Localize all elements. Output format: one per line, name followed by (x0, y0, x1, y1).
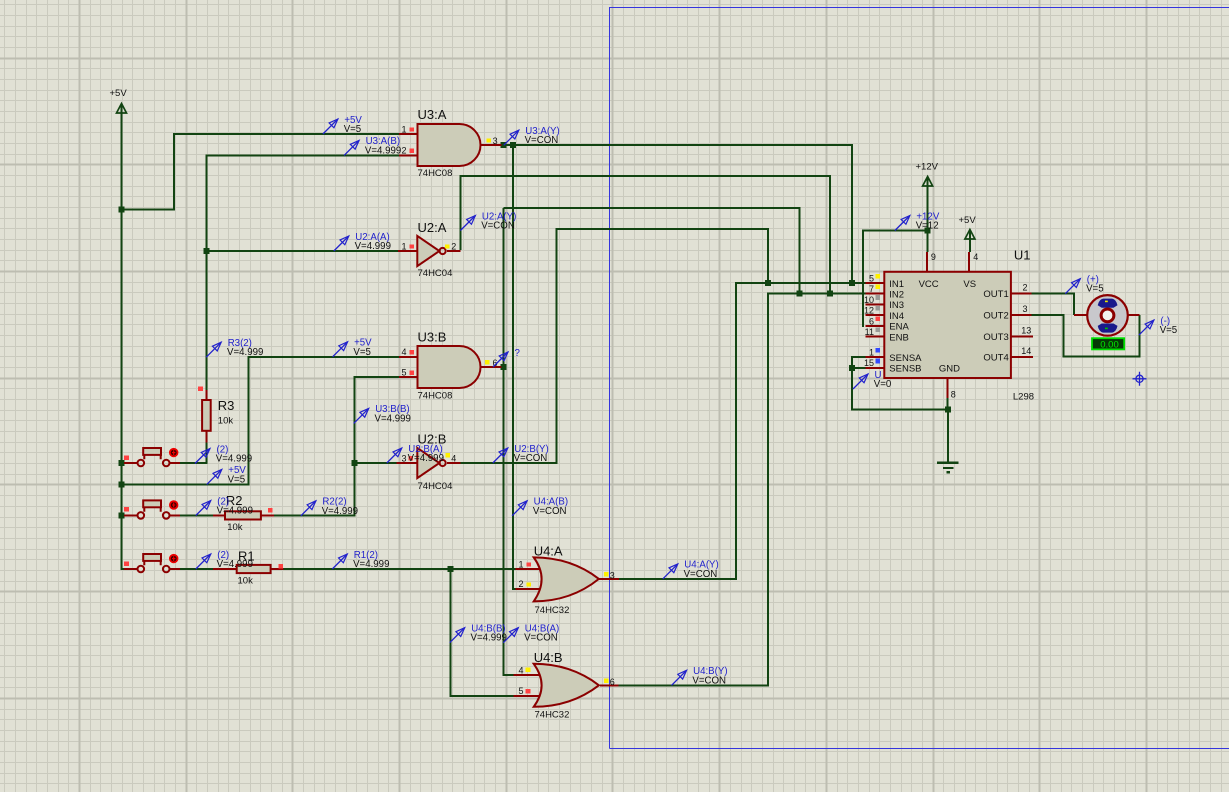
junction U3:A out b (510, 142, 516, 148)
power +5V (top left) (110, 88, 128, 113)
pin state ENA (875, 317, 880, 322)
svg-text:V=5: V=5 (344, 124, 362, 135)
junction IN2 left (796, 291, 802, 297)
origin marker (blue crosshair) (1133, 372, 1147, 386)
probe U4:B(Y) (672, 666, 728, 686)
svg-text:74HC32: 74HC32 (535, 605, 570, 616)
pin state U3:A.1 high (410, 127, 414, 131)
svg-text:OUT2: OUT2 (983, 311, 1008, 322)
svg-text:10: 10 (864, 295, 874, 305)
wire +5V to U3:A pin1 (122, 134, 399, 210)
pin state button2 (124, 507, 129, 512)
wire U3:A pin2 to R3 top (206, 155, 398, 390)
svg-text:VCC: VCC (919, 279, 939, 290)
pin state IN3 (875, 295, 880, 300)
pin state U3:A.2 high (410, 149, 414, 153)
probe U3:B(B) (354, 404, 411, 424)
pin state U4:B.4 (525, 668, 530, 672)
wire H208 to IN2 (503, 208, 799, 294)
junction button1 (119, 460, 125, 466)
pin state button1 (124, 456, 129, 461)
svg-text:+12V: +12V (916, 162, 939, 173)
resistor R1 (10k) (213, 565, 284, 573)
pin state R1 right (278, 564, 283, 569)
wire U2:A input from node (206, 250, 398, 252)
svg-text:ENA: ENA (889, 322, 909, 333)
svg-text:?: ? (515, 348, 521, 359)
wire R1 right to U4:A pin1 (270, 568, 516, 570)
pin state U2:B.3 high (408, 456, 412, 460)
wire button2 right to R2 (180, 514, 226, 516)
pin state U2:B.4 out (445, 453, 449, 457)
svg-text:13: 13 (1021, 325, 1031, 335)
probe U (SENSB, clipped by IC) (853, 370, 892, 390)
svg-text:2: 2 (518, 579, 523, 589)
probe ? on U3:B out (493, 348, 521, 367)
wire R2 right to U3:B pin5 and U2:B input (260, 377, 399, 515)
pin state U2:A.2 out (445, 244, 449, 248)
svg-text:V=4.999: V=4.999 (365, 145, 401, 156)
probe +5V on U3:B pin4 (333, 338, 373, 358)
wire OUT2 to motor - (1031, 315, 1139, 356)
svg-text:V=4.999: V=4.999 (217, 559, 253, 570)
probe U2:B(Y) (493, 444, 549, 464)
wire +5V rail to U3:B pin4 (122, 357, 399, 485)
probe R3(2) (206, 338, 263, 358)
svg-text:6: 6 (869, 316, 874, 326)
wire +12V branch to ENA (863, 231, 928, 327)
ground (937, 463, 958, 472)
svg-text:IN2: IN2 (889, 290, 904, 301)
svg-text:8: 8 (951, 390, 956, 400)
power +12V (916, 162, 939, 187)
svg-text:U3:B: U3:B (418, 330, 447, 345)
inverter U2:B (74HC04) (397, 448, 461, 478)
junction +12V/ENA (925, 228, 931, 234)
AND gate U3:B (74HC08) (399, 346, 502, 388)
probe +12V (895, 211, 940, 231)
wire U2:B output to IN1 (460, 229, 768, 463)
svg-text:5: 5 (869, 274, 874, 284)
wire vertical V1: U3:B out net down to U4:B pin4 (503, 208, 513, 675)
svg-text:V=5: V=5 (228, 474, 246, 485)
motor speed display (1092, 338, 1124, 349)
svg-text:SENSB: SENSB (889, 364, 921, 375)
svg-text:4: 4 (518, 665, 523, 675)
svg-text:1: 1 (869, 348, 874, 358)
AND gate U3:A (74HC08) (399, 124, 502, 166)
svg-text:1: 1 (401, 124, 406, 134)
probe U2:A(Y) (460, 211, 516, 231)
probe (-) motor (1139, 316, 1177, 336)
pin state U4:B.6 out (604, 679, 608, 683)
probe R2(2) (301, 497, 358, 517)
pin state IN1 (875, 274, 880, 279)
junction SENSB (849, 365, 855, 371)
svg-text:3: 3 (493, 136, 498, 146)
junction U3:B out (500, 364, 506, 370)
OR gate U4:B (74HC32) (514, 664, 619, 707)
probe U4:B(A) (503, 624, 559, 644)
resistor R3 (10k, vertical) (202, 390, 211, 442)
junction button2 (119, 512, 125, 518)
junction +5V rail (119, 482, 125, 488)
svg-text:2: 2 (401, 146, 406, 156)
wire button2 left (122, 514, 127, 516)
probe U4:A(B) (512, 497, 568, 517)
svg-text:V=4.999: V=4.999 (353, 559, 389, 570)
pin state button3 (124, 562, 129, 567)
svg-text:U1: U1 (1014, 248, 1031, 263)
probe U3:A(Y) (504, 126, 560, 146)
svg-text:14: 14 (1021, 346, 1031, 356)
pin state R2 right (268, 508, 273, 513)
svg-text:V=4.999: V=4.999 (217, 506, 253, 517)
pin state U4:A.1 high (527, 562, 531, 566)
svg-text:ENB: ENB (889, 332, 909, 343)
junction R1 row node (448, 566, 454, 572)
svg-text:SENSA: SENSA (889, 353, 922, 364)
probe +5V rail (207, 465, 247, 485)
svg-text:OUT3: OUT3 (983, 332, 1008, 343)
svg-text:V=CON: V=CON (481, 221, 515, 232)
pin state R3 top (198, 386, 203, 391)
svg-text:10k: 10k (238, 576, 254, 587)
OR gate U4:A (74HC32) (516, 557, 619, 601)
svg-text:V=CON: V=CON (684, 569, 718, 580)
svg-text:V=4.999: V=4.999 (227, 347, 263, 358)
svg-text:V=4.999: V=4.999 (471, 633, 507, 644)
push button 3 (124, 554, 180, 572)
junction +5V/U3:A pin1 (119, 207, 125, 213)
svg-text:V=CON: V=CON (514, 453, 548, 464)
svg-text:10k: 10k (218, 416, 234, 427)
svg-text:3: 3 (1023, 304, 1028, 314)
junction GND node (945, 407, 951, 413)
svg-text:74HC08: 74HC08 (418, 168, 453, 179)
probe U3:A(B) (344, 136, 401, 156)
svg-text:6: 6 (610, 677, 615, 687)
probe U4:B(B) (450, 624, 507, 644)
svg-text:V=5: V=5 (1160, 325, 1178, 336)
junction IN1 right (849, 280, 855, 286)
pin state U3:A.3 out (487, 138, 491, 142)
svg-text:3: 3 (401, 453, 406, 463)
pin state ENB (875, 327, 880, 332)
wire GND pin down (946, 398, 948, 409)
pin state SENSA (875, 348, 880, 353)
junction IN1 left (765, 280, 771, 286)
pin state U3:B.4 high (410, 350, 414, 354)
wire +5V rail vertical (left) (122, 104, 138, 569)
wire R3 bottom to button1 (180, 442, 207, 463)
probe U2:B(A) (387, 444, 444, 464)
svg-text:V=4.999: V=4.999 (355, 241, 391, 252)
svg-text:U4:A: U4:A (534, 544, 563, 559)
probe (2) button3 (196, 550, 253, 570)
svg-text:V=5: V=5 (1086, 284, 1104, 295)
svg-text:U2:A: U2:A (418, 220, 447, 235)
svg-text:R3: R3 (218, 398, 235, 413)
svg-text:2: 2 (1023, 283, 1028, 293)
svg-text:IN3: IN3 (889, 300, 904, 311)
pin state U4:B.5 high (525, 689, 530, 693)
push button 1 (124, 448, 180, 466)
svg-text:V=4.999: V=4.999 (375, 413, 411, 424)
svg-text:V=0: V=0 (874, 379, 892, 390)
junction U3:A out a (501, 142, 507, 148)
probe U2:A(A) (334, 232, 391, 252)
svg-text:V=4.999: V=4.999 (408, 453, 444, 464)
wire +12V to VCC (927, 178, 929, 252)
svg-text:74HC04: 74HC04 (418, 268, 453, 279)
svg-text:5: 5 (518, 686, 523, 696)
svg-text:GND: GND (939, 364, 960, 375)
svg-text:V=4.999: V=4.999 (216, 454, 252, 465)
wire U3:A output to IN1 (501, 145, 852, 283)
pin state U3:B.6 out (485, 360, 489, 364)
wire SENSA/SENSB to ground (852, 357, 948, 462)
wire U2:A output to IN2 (460, 176, 830, 294)
svg-text:10k: 10k (227, 522, 243, 533)
svg-text:11: 11 (865, 327, 874, 337)
probe (2) button2 (196, 496, 253, 516)
wire U2:B input branch (354, 462, 396, 464)
pin state IN2 (875, 285, 880, 290)
svg-text:V=CON: V=CON (524, 633, 558, 644)
probe (2) button1 (195, 444, 252, 464)
svg-text:3: 3 (610, 571, 615, 581)
inverter U2:A (74HC04) (398, 236, 461, 266)
svg-text:U3:A: U3:A (418, 107, 447, 122)
svg-text:74HC04: 74HC04 (418, 481, 453, 492)
svg-text:1: 1 (401, 241, 406, 251)
wire button3 right to R1 (180, 568, 238, 570)
pin state IN4 (875, 306, 880, 311)
probe U4:A(Y) (663, 560, 719, 580)
wire vertical V2: U3:A out down to U4:A pin2 (513, 145, 516, 589)
svg-text:IN1: IN1 (889, 279, 904, 290)
push button 2 (124, 500, 180, 518)
svg-text:VS: VS (963, 279, 976, 290)
power +5V (VS) (959, 215, 977, 239)
wire button3 left (122, 568, 127, 570)
svg-text:U4:B: U4:B (534, 650, 563, 665)
svg-text:15: 15 (864, 358, 874, 368)
wire +5V to VS (969, 231, 971, 252)
IC U1 L298 (865, 252, 1033, 398)
svg-text:V=CON: V=CON (692, 675, 726, 686)
svg-text:+5V: +5V (959, 215, 977, 226)
svg-text:4: 4 (451, 453, 456, 463)
svg-text:0.00: 0.00 (1100, 340, 1119, 351)
junction IN2 right (827, 291, 833, 297)
svg-text:12: 12 (864, 306, 874, 316)
wire SENSB stub link (852, 367, 865, 369)
svg-text:V=4.999: V=4.999 (322, 506, 358, 517)
svg-text:9: 9 (931, 252, 936, 262)
pin state U4:A.2 low (527, 582, 531, 586)
svg-text:4: 4 (973, 252, 978, 262)
junction U2:B input node (351, 460, 357, 466)
svg-text:OUT4: OUT4 (983, 353, 1008, 364)
pin state U2:A.1 high (410, 244, 414, 248)
pin state SENSB (875, 359, 880, 364)
svg-text:4: 4 (401, 347, 406, 357)
wire IN1 row to U4:A output (619, 283, 865, 579)
pin state U4:A.3 out (604, 572, 608, 576)
pin state U3:B.5 high (410, 371, 414, 375)
junction U2:A input node (203, 248, 209, 254)
svg-text:V=5: V=5 (353, 347, 371, 358)
wire IN2 row to U4:B output (619, 294, 866, 686)
svg-text:IN4: IN4 (889, 311, 904, 322)
svg-text:V=CON: V=CON (525, 135, 559, 146)
resistor R2 (10k) (213, 511, 274, 519)
wire node to U4:B pin5 (451, 569, 514, 696)
motor (1074, 295, 1140, 350)
probe R1(2) (332, 550, 389, 570)
svg-text:7: 7 (869, 284, 874, 294)
wire button1 left (122, 462, 127, 464)
svg-text:5: 5 (401, 368, 406, 378)
svg-text:2: 2 (451, 241, 456, 251)
probe (+) motor (1065, 275, 1103, 295)
svg-text:V=12: V=12 (916, 221, 939, 232)
svg-text:V=CON: V=CON (533, 506, 567, 517)
svg-text:L298: L298 (1013, 391, 1034, 402)
selection frame (blue sheet border) (610, 8, 1229, 749)
svg-text:1: 1 (518, 559, 523, 569)
wire OUT1 to motor + (1031, 294, 1074, 316)
probe +5V on U3:A pin1 (323, 115, 363, 135)
svg-text:OUT1: OUT1 (983, 289, 1008, 300)
svg-text:74HC08: 74HC08 (418, 391, 453, 402)
svg-text:74HC32: 74HC32 (535, 710, 570, 721)
svg-text:+5V: +5V (110, 88, 128, 99)
